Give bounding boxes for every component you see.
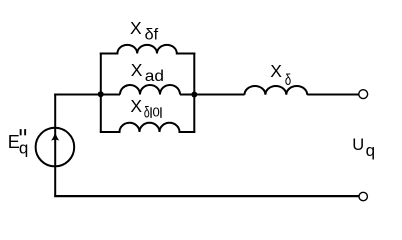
terminal: bottom output — [359, 192, 367, 200]
inductor Xad (middle branch coil) — [120, 85, 180, 95]
wire: bottom horizontal to bottom terminal — [54, 195, 358, 197]
inductor Xdf (top branch with coil) — [100, 45, 196, 54]
wire: box left edge vertical — [100, 53, 102, 133]
svg-text:q: q — [19, 139, 28, 158]
wire: from series coil to top terminal — [307, 94, 358, 96]
node: left junction dot — [98, 91, 104, 97]
wire: main horizontal from source top corner to middle coil — [54, 94, 120, 96]
label Xad — [131, 60, 164, 85]
terminal: top output — [359, 90, 368, 99]
label Uq (output voltage) — [352, 136, 375, 160]
source arrow head — [51, 131, 59, 140]
svg-text:δ: δ — [144, 104, 150, 121]
svg-text:X: X — [270, 61, 282, 81]
inductor Xdelta (series coil) — [245, 86, 308, 95]
wire: middle branch right of coil to right node — [180, 94, 245, 96]
svg-text:X: X — [130, 18, 142, 38]
svg-text:δ: δ — [285, 72, 291, 89]
label E''q (source emf) — [8, 129, 29, 158]
wire: box right edge vertical — [193, 53, 195, 133]
svg-text:X: X — [131, 60, 143, 80]
svg-text:ad: ad — [145, 68, 164, 85]
node: right junction dot — [191, 92, 197, 98]
label Xdelta (series) — [270, 61, 291, 89]
svg-text:q: q — [366, 141, 375, 160]
label Xdf — [130, 18, 159, 44]
wire: left vertical from main wire down to bottom wire — [54, 94, 56, 197]
svg-text:δf: δf — [145, 27, 159, 44]
label Xd|0| — [130, 96, 161, 122]
svg-text:U: U — [352, 136, 364, 154]
svg-text:0: 0 — [153, 105, 160, 120]
inductor Xd0 (bottom branch with coil) — [100, 123, 196, 132]
svg-text:X: X — [130, 96, 142, 116]
source E''q circle — [36, 128, 75, 167]
